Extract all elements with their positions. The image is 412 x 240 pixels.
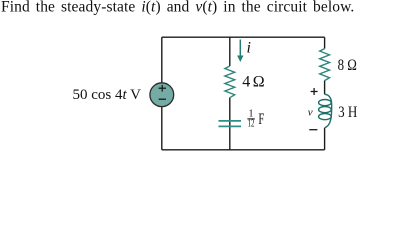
wire left branch upper [161, 37, 163, 82]
wire middle branch upper [229, 37, 231, 66]
svg-text:12: 12 [248, 119, 255, 130]
inductor coil loop 2 [319, 107, 332, 113]
inductor minus sign [309, 129, 317, 131]
resistor 4ohm zigzag [225, 66, 235, 98]
wire top rail [162, 36, 325, 38]
inductor plus sign [311, 88, 318, 95]
svg-text:F: F [258, 111, 264, 128]
svg-text:3 H: 3 H [338, 104, 358, 121]
svg-text:v: v [308, 107, 313, 119]
voltage source circle [150, 83, 174, 107]
svg-text:i: i [247, 40, 251, 57]
svg-text:8 Ω: 8 Ω [338, 57, 357, 74]
wire right branch upper [324, 37, 326, 48]
capacitor C plates [219, 121, 242, 127]
wire right branch lower [324, 128, 326, 150]
inductor coil loop 3 [319, 114, 332, 120]
label 1/12 F fraction [247, 109, 264, 130]
current arrow i [239, 40, 241, 57]
inductor coil loop 1 [319, 100, 332, 106]
wire left branch lower [161, 107, 163, 150]
svg-text:Find the steady-state i(t) and: Find the steady-state i(t) and v(t) in t… [1, 0, 354, 16]
wire middle branch lower [229, 98, 231, 150]
svg-text:4Ω: 4Ω [242, 74, 265, 91]
svg-text:50 cos 4t V: 50 cos 4t V [73, 87, 142, 103]
inductor coil outer arc [325, 94, 332, 128]
voltage source plus sign [159, 85, 166, 92]
wire bottom rail [162, 149, 325, 151]
wire right branch middle [324, 81, 326, 95]
resistor 8ohm zigzag [320, 49, 330, 81]
voltage source minus sign [159, 98, 166, 100]
